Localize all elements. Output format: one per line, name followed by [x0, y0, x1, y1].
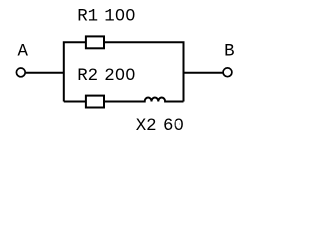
- svg-text:A: A: [17, 43, 28, 62]
- svg-text:X2: X2: [136, 117, 157, 136]
- svg-text:100: 100: [104, 7, 135, 26]
- svg-text:200: 200: [104, 67, 135, 86]
- svg-text:R1: R1: [77, 7, 98, 26]
- svg-text:60: 60: [163, 117, 184, 136]
- svg-text:R2: R2: [77, 67, 98, 86]
- svg-text:B: B: [224, 43, 234, 62]
